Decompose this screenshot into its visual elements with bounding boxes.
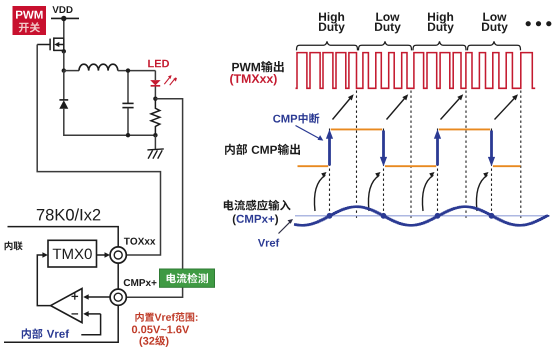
Vref reference line [295, 215, 550, 217]
wire R1 to ground [154, 135, 156, 149]
MCU box bottom border [4, 306, 118, 343]
wire node A to inductor L1 [64, 70, 79, 72]
MCU box top border [8, 227, 119, 247]
waveform section labels High/Low Duty [319, 12, 508, 33]
ground [147, 149, 163, 159]
PWM output waveform (TMXxx) [296, 53, 536, 89]
label 内部 CMP输出 [225, 144, 300, 155]
arrowhead into TMX0 [42, 252, 48, 258]
comparator + input sign [72, 293, 79, 300]
block TMX0 [48, 240, 97, 267]
wire node A branch to capacitor C1 [127, 70, 129, 103]
wire internal Vref to comparator - input with arrowhead [81, 314, 100, 335]
label Vref [258, 239, 279, 247]
label 电流感应输入 [224, 200, 291, 211]
label 内部 Vref [22, 328, 69, 338]
arrows CMP interrupt to PWM duty change [333, 94, 519, 119]
node A junction dot [62, 68, 66, 72]
wire diode D1 to bottom rail [64, 109, 156, 136]
wire capacitor C1 to bottom rail [127, 108, 129, 136]
node sense junction dot [153, 97, 157, 101]
current detect box 电流检测 [160, 269, 215, 287]
resistor R1 (current sense) [151, 99, 160, 136]
MCU box border between pins [117, 263, 119, 288]
comparator - input sign [72, 313, 79, 315]
wire comparator output to TMX0 input [37, 255, 50, 306]
wire LED node down to LED D2 [154, 71, 156, 80]
note 内置Vref范围 line 1 [135, 312, 197, 321]
wire TMX0 to TOXxx pin with arrowhead [97, 254, 106, 256]
pin TOXxx (port circle) [110, 247, 126, 263]
capacitor C1 [122, 103, 133, 107]
MCU 78K0/Ix2 label [37, 208, 101, 220]
VDD rail bar [51, 17, 79, 19]
op-amp U1 comparator [51, 289, 82, 323]
label (CMPx+) [233, 215, 278, 226]
label CMP中断 [273, 113, 319, 124]
ellipsis dots top right [526, 21, 552, 26]
pin label TOXxx [124, 238, 155, 245]
curved arrows sine crossing to CMP edge [314, 172, 488, 211]
pointer arrow CMP中断 to first rising edge [296, 126, 320, 139]
pin label CMPx+ [124, 279, 157, 286]
CMP output falling edges (blue arrows down) [380, 131, 495, 167]
net VDD label [52, 6, 72, 13]
dashed duty-boundary lines [357, 91, 521, 219]
wire Q1 source to node A [63, 51, 65, 70]
wire sense node to current-sense line (to CMPx+ pin) [127, 99, 183, 298]
internal CMP output waveform (orange levels) [298, 129, 521, 166]
pin CMPx+ (port circle) [110, 289, 126, 305]
inductor L1 [79, 64, 118, 70]
current sense input sine waveform [294, 207, 548, 226]
node VDD junction dot [61, 16, 66, 21]
pointer arrow to Vref line [279, 222, 291, 234]
note 32 steps line 3 [140, 336, 169, 347]
node bottom rail / C1 junction dot [126, 133, 130, 137]
node Q1 source junction dot [62, 49, 66, 53]
wire LED D2 to sense node [154, 87, 156, 99]
sine crossing dots [327, 213, 495, 219]
wire TOXxx pin to Q1 gate [37, 45, 160, 256]
PWM switch label box [13, 6, 47, 35]
LED D2 emission arrows [164, 75, 177, 85]
wire node A down to diode D1 [63, 71, 65, 101]
node R1 bottom junction dot [153, 133, 157, 137]
diode D1 (freewheeling, cathode up) [59, 100, 68, 109]
LED D2 [150, 80, 160, 86]
dashed CMP-transition lines [330, 129, 492, 219]
note Vref range line 2 [132, 326, 189, 334]
CMP output rising edges (blue arrows up) [326, 129, 441, 165]
wire inductor L1 to LED node [118, 70, 156, 72]
wire CMPx+ pin to comparator + input with arrowhead [88, 296, 110, 298]
node capacitor C1 top junction dot [126, 68, 130, 72]
label PWM输出 [232, 61, 283, 72]
transistor Q1 (P-MOSFET) [37, 37, 64, 51]
LED label [148, 60, 169, 68]
label (TMXxx) [230, 74, 277, 86]
label 内联 [5, 241, 23, 250]
braces over duty sections [297, 41, 521, 50]
wire VDD to Q1 drain [63, 18, 65, 38]
